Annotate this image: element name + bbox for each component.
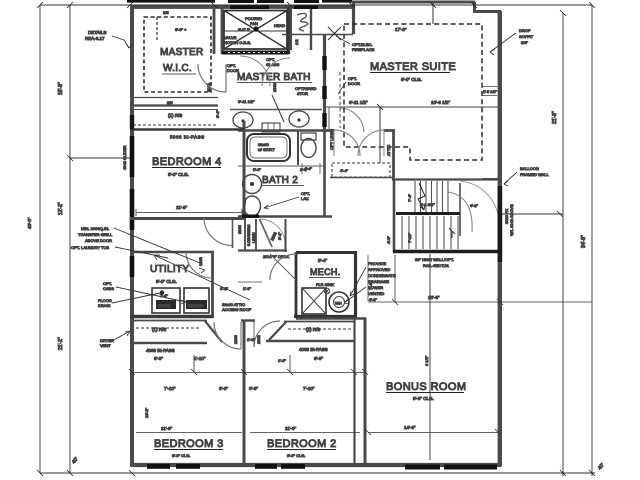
fireplace wall xyxy=(282,34,353,36)
svg-text:OPT LINEN: OPT LINEN xyxy=(329,129,334,150)
door arc: bedroom4 hall xyxy=(204,218,233,246)
svg-text:5'-1 3/8": 5'-1 3/8" xyxy=(420,202,435,207)
svg-text:REA-6.17: REA-6.17 xyxy=(85,36,105,41)
center line xyxy=(429,254,431,460)
svg-text:BEDROOM 4: BEDROOM 4 xyxy=(152,156,222,168)
dim line: far left vertical xyxy=(39,5,41,473)
wall: WIC right xyxy=(213,7,216,54)
svg-text:FIREPLACE: FIREPLACE xyxy=(352,47,375,52)
svg-text:4068 BI-PASS: 4068 BI-PASS xyxy=(299,347,328,352)
svg-text:6'-2": 6'-2" xyxy=(470,203,479,208)
svg-text:CONDENSATE: CONDENSATE xyxy=(368,273,396,278)
svg-text:3/4": 3/4" xyxy=(521,40,529,45)
svg-text:10'-6 1/2": 10'-6 1/2" xyxy=(431,100,450,105)
svg-text:MECH.: MECH. xyxy=(310,267,341,277)
svg-text:9'-11 1/2": 9'-11 1/2" xyxy=(238,99,255,104)
svg-text:BONUS ROOM: BONUS ROOM xyxy=(386,381,466,393)
door arc: bedroom2 xyxy=(254,321,280,347)
svg-text:8'-0" CLG.: 8'-0" CLG. xyxy=(172,453,190,458)
dim line: bottom xyxy=(40,472,595,474)
svg-text:8'-0" CLG.: 8'-0" CLG. xyxy=(413,396,434,401)
svg-text:w/ SKIRT: w/ SKIRT xyxy=(258,147,275,152)
svg-text:DETAILS: DETAILS xyxy=(88,30,106,35)
svg-text:38" HIGH WALL/OPT.: 38" HIGH WALL/OPT. xyxy=(415,257,454,262)
svg-text:2868: 2868 xyxy=(198,256,203,266)
svg-text:21'-2": 21'-2" xyxy=(58,337,64,350)
svg-text:3'-3": 3'-3" xyxy=(219,386,228,391)
balloon framed wall (dark) xyxy=(498,186,503,262)
wall: master bath / suite divider xyxy=(323,34,326,130)
svg-text:LINEN: LINEN xyxy=(252,232,256,243)
svg-text:6'-8": 6'-8" xyxy=(154,356,163,361)
svg-text:ATTIC: ATTIC xyxy=(386,145,391,156)
towel coil xyxy=(297,13,308,31)
svg-text:LAV.: LAV. xyxy=(301,196,309,201)
svg-text:8'-0" CLG.: 8'-0" CLG. xyxy=(168,172,189,177)
door arc: WIC xyxy=(198,64,226,92)
svg-text:7'-4": 7'-4" xyxy=(368,281,373,290)
svg-text:9'-6": 9'-6" xyxy=(215,109,220,118)
svg-text:8'-0" CLG.: 8'-0" CLG. xyxy=(401,77,422,82)
svg-text:DRAIN: DRAIN xyxy=(98,303,111,308)
lower treads xyxy=(402,216,458,249)
svg-text:ACCESS ROOF: ACCESS ROOF xyxy=(222,307,252,312)
svg-text:2868: 2868 xyxy=(233,334,238,344)
svg-text:15'-8": 15'-8" xyxy=(58,82,64,95)
svg-text:MASTER BATH: MASTER BATH xyxy=(237,72,311,83)
svg-text:MIN. 100SQ.IN.: MIN. 100SQ.IN. xyxy=(81,226,109,231)
stair wall bottom (38" high wall) xyxy=(393,250,500,253)
svg-text:6'-8": 6'-8" xyxy=(314,356,323,361)
svg-text:7'-4": 7'-4" xyxy=(407,193,412,202)
top cropped dim-text bar xyxy=(127,0,352,3)
shower room walls xyxy=(221,7,224,54)
svg-text:VENTED: VENTED xyxy=(368,291,384,296)
svg-text:2868: 2868 xyxy=(256,334,261,344)
wall: bottom exterior xyxy=(131,463,502,467)
svg-text:8'-0" CLG.: 8'-0" CLG. xyxy=(287,453,305,458)
wall: step between top walls xyxy=(352,2,355,34)
fireplace X xyxy=(328,27,341,40)
window: top wall over shower xyxy=(230,5,269,9)
wall: bath2 bottom / hall xyxy=(238,215,332,218)
attic closet dashed xyxy=(332,163,390,177)
svg-text:APPROVED: APPROVED xyxy=(368,267,390,272)
svg-text:4'-0": 4'-0" xyxy=(369,297,378,302)
svg-text:STOR: STOR xyxy=(297,91,308,96)
svg-text:BATH 2: BATH 2 xyxy=(262,175,298,186)
hall closet door angled xyxy=(260,219,273,247)
svg-text:4'-4": 4'-4" xyxy=(304,166,313,171)
svg-text:12'-2": 12'-2" xyxy=(58,202,64,215)
svg-text:5'-0": 5'-0" xyxy=(253,167,262,172)
door arc stair top right xyxy=(460,181,499,224)
svg-text:11'-6": 11'-6" xyxy=(285,426,297,431)
svg-text:2868: 2868 xyxy=(272,82,277,92)
svg-text:1'-8": 1'-8" xyxy=(243,286,252,291)
dim line: right vertical (21'-8") xyxy=(562,13,564,476)
svg-text:W/L 3040 ABOVE: W/L 3040 ABOVE xyxy=(509,204,514,236)
svg-text:3'-3": 3'-3" xyxy=(249,386,258,391)
divider + dims xyxy=(238,165,326,167)
svg-text:21'-8": 21'-8" xyxy=(552,111,558,124)
room: BONUS ROOM xyxy=(364,318,367,465)
svg-text:11'-6": 11'-6" xyxy=(176,205,188,210)
svg-text:DOOR: DOOR xyxy=(348,81,360,86)
toilet round bath2 xyxy=(244,196,261,216)
wall: top notch divider xyxy=(432,3,434,24)
stairwell xyxy=(392,178,500,180)
svg-text:40'-0": 40'-0" xyxy=(27,217,32,229)
sink bath2 xyxy=(243,175,262,194)
svg-text:BEDROOM 3: BEDROOM 3 xyxy=(154,438,224,450)
svg-text:4'-5": 4'-5" xyxy=(386,235,391,244)
WIC shelf dashed rect xyxy=(144,17,211,92)
svg-text:13'-2": 13'-2" xyxy=(144,407,149,418)
svg-text:7'-10": 7'-10" xyxy=(303,386,315,391)
rail curve + post xyxy=(459,183,461,236)
wall: hall/bedroom4 top w/ bi-pass xyxy=(130,128,244,131)
svg-text:11'-6": 11'-6" xyxy=(161,426,173,431)
hall closet bottom wall xyxy=(238,249,287,251)
wall: top-right notch xyxy=(473,2,501,12)
dim connector: right wall to 21'-8 line xyxy=(502,213,563,215)
svg-text:34'-8": 34'-8" xyxy=(581,235,587,248)
wall: post between bedroom doors xyxy=(241,319,255,321)
svg-text:BALLOON: BALLOON xyxy=(520,166,539,171)
vanity sinks xyxy=(230,109,322,111)
room: MASTER W.I.C. xyxy=(144,7,226,118)
wall: bedroom4 bottom xyxy=(130,217,244,220)
room: UTILITY xyxy=(134,251,214,254)
svg-text:1'-10": 1'-10" xyxy=(194,356,206,361)
windows bottom wall xyxy=(147,464,170,469)
svg-text:8/5: 8/5 xyxy=(167,100,173,105)
wall: top exterior (master suite) xyxy=(352,1,475,4)
svg-text:(1) R/S: (1) R/S xyxy=(306,327,320,332)
svg-text:TRANSFER GRILL: TRANSFER GRILL xyxy=(78,232,113,237)
shower pan with X xyxy=(224,11,287,50)
svg-text:7'-10": 7'-10" xyxy=(407,232,412,243)
mid landing rail xyxy=(396,212,460,215)
svg-text:NOTCH O.B.B.: NOTCH O.B.B. xyxy=(224,40,251,45)
1'-5 1/2 dim xyxy=(482,87,497,96)
wall: bath2 right xyxy=(323,130,326,217)
svg-text:8'-0" CLG.: 8'-0" CLG. xyxy=(156,279,177,284)
dryer xyxy=(152,288,180,313)
dim line: top xyxy=(40,4,592,6)
svg-text:1'-5 1/2": 1'-5 1/2" xyxy=(483,90,498,94)
dim connector: 4040 slider to wall xyxy=(70,157,131,159)
svg-text:RAIL-SECT.21: RAIL-SECT.21 xyxy=(423,263,450,268)
furnace xyxy=(302,288,326,314)
suite mid line xyxy=(326,106,498,108)
svg-text:5-DRAWERS: 5-DRAWERS xyxy=(247,224,251,246)
svg-text:VENT: VENT xyxy=(100,343,111,348)
dim line: left vertical 2 xyxy=(69,5,71,473)
svg-text:WASHER: WASHER xyxy=(188,304,204,308)
svg-text:HEAD: HEAD xyxy=(274,23,285,28)
svg-text:2868: 2868 xyxy=(237,224,242,234)
svg-text:CABS: CABS xyxy=(103,286,114,291)
window: utility left wall xyxy=(130,256,135,277)
stair direction zigzag xyxy=(418,183,425,210)
svg-text:6'-0" P: 6'-0" P xyxy=(238,27,250,32)
drop soffit dashed outline xyxy=(344,24,482,160)
13'-6 dim line xyxy=(368,301,592,303)
wall: bath2 left (bedroom4 right) xyxy=(243,121,246,218)
svg-text:SOFFIT: SOFFIT xyxy=(519,34,534,39)
door arc: mech xyxy=(270,254,296,280)
svg-text:UTILITY: UTILITY xyxy=(150,264,189,275)
wall: left exterior xyxy=(130,7,134,466)
closet row between WIC and bedroom 4 xyxy=(134,97,218,99)
svg-text:(1) R/S: (1) R/S xyxy=(152,327,166,332)
water heater xyxy=(329,292,349,312)
tub 36x60 xyxy=(247,134,290,161)
svg-text:MASTER SUITE: MASTER SUITE xyxy=(370,61,456,73)
toilet bath2 xyxy=(301,133,316,140)
wall: right exterior xyxy=(498,11,502,466)
wall: stair/suite right connector xyxy=(482,178,499,180)
windows: bedroom4 left wall xyxy=(130,136,135,177)
WC room walls xyxy=(290,9,292,50)
wall: bd3/bd2 divider xyxy=(243,320,246,465)
svg-text:14'-6": 14'-6" xyxy=(404,425,416,430)
door arc right of linen xyxy=(340,108,364,132)
door arc: bedroom3 xyxy=(214,322,241,349)
svg-text:FLR SINK: FLR SINK xyxy=(316,282,334,287)
svg-text:4'-4": 4'-4" xyxy=(340,168,349,173)
wall: suite bottom w/ double doors xyxy=(326,129,395,132)
svg-text:5'-4": 5'-4" xyxy=(318,258,327,263)
bedroom3 closet xyxy=(134,320,207,322)
svg-text:6'-11 1/2": 6'-11 1/2" xyxy=(349,100,368,105)
room: MECH xyxy=(296,251,357,254)
svg-text:PAN: PAN xyxy=(250,21,258,26)
svg-text:8/5: 8/5 xyxy=(163,10,169,15)
svg-text:4068 BI-PASS: 4068 BI-PASS xyxy=(146,348,175,353)
svg-text:4040 SLIDER: 4040 SLIDER xyxy=(122,145,127,170)
svg-text:1'-8": 1'-8" xyxy=(247,337,256,342)
svg-text:1'-0": 1'-0" xyxy=(278,358,287,363)
door arc: utility xyxy=(186,252,212,278)
shower curb (black strip) xyxy=(222,51,289,55)
upper treads xyxy=(415,181,448,212)
wall: right of doors xyxy=(392,130,395,179)
svg-text:MASTER: MASTER xyxy=(160,47,203,58)
washer xyxy=(184,288,209,313)
svg-text:DRYER: DRYER xyxy=(158,304,171,308)
svg-text:17'-8": 17'-8" xyxy=(395,27,407,32)
svg-text:3'-1": 3'-1" xyxy=(277,231,282,240)
svg-text:6 1/2": 6 1/2" xyxy=(424,355,429,366)
svg-text:(1) R/S: (1) R/S xyxy=(168,113,182,118)
svg-text:FRAMED WALL: FRAMED WALL xyxy=(520,172,550,177)
door arcs in master bath xyxy=(240,56,270,86)
svg-text:OPT. LAUNDRY TUB: OPT. LAUNDRY TUB xyxy=(71,245,109,250)
double door arcs xyxy=(334,130,360,156)
svg-text:PROVIDE: PROVIDE xyxy=(368,261,386,266)
wall: bath2 tub/toilet divider xyxy=(297,131,299,165)
wall: top exterior (left section) xyxy=(130,5,354,9)
svg-text:DROP: DROP xyxy=(519,28,531,33)
wall: bath2 top / vanity wall xyxy=(238,129,326,132)
dim line: far right vertical xyxy=(591,5,593,476)
svg-text:BEDROOM 2: BEDROOM 2 xyxy=(267,438,337,450)
svg-text:DOOR: DOOR xyxy=(227,68,239,73)
svg-text:ABOVE DOOR: ABOVE DOOR xyxy=(85,238,112,243)
svg-text:5068 BI-PASS: 5068 BI-PASS xyxy=(170,135,205,140)
svg-text:W.I.C.: W.I.C. xyxy=(163,63,192,74)
svg-text:WH: WH xyxy=(335,301,342,306)
bedroom2 closet xyxy=(284,321,355,323)
svg-text:6'-0" +: 6'-0" + xyxy=(175,27,187,32)
svg-text:7'-10": 7'-10" xyxy=(164,386,176,391)
svg-text:1/2: 1/2 xyxy=(294,39,299,45)
